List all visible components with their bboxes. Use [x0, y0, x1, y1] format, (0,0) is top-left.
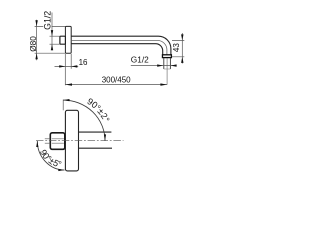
shower arm tube outline (side view) [71, 36, 171, 55]
outlet joint band [162, 55, 171, 58]
arm middle line [71, 41, 167, 55]
dim 16 [55, 65, 79, 67]
arm centerline (top view) [36, 140, 124, 142]
flange face extension line (up) [62, 100, 64, 111]
thread nub G1/2 (side view) [60, 36, 66, 44]
dim G1/2 line (left) [51, 13, 53, 51]
arm (top view) [79, 132, 113, 148]
mounting nut (top view) [50, 133, 65, 150]
svg-text:G1/2: G1/2 [43, 11, 53, 30]
dim Ø80 extension lines [35, 26, 66, 53]
outlet tube below band [164, 58, 171, 69]
wall flange (side view) [65, 26, 71, 53]
angle arc 90°±2° [63, 100, 105, 141]
wall flange (top view) [65, 110, 78, 171]
dim 43 [172, 41, 185, 57]
dim 300/450 [65, 84, 167, 86]
svg-text:G1/2: G1/2 [131, 54, 149, 64]
dim 16 extension lines [65, 54, 71, 85]
thread stub left of nut [45, 139, 51, 143]
outlet centerline extension [166, 58, 168, 85]
svg-text:300/450: 300/450 [102, 75, 131, 84]
angle arc 90°±5° [37, 141, 64, 170]
dim Ø80 line [36, 20, 38, 61]
dim G1/2 extension lines [50, 36, 60, 44]
svg-text:16: 16 [79, 58, 88, 67]
svg-text:Ø80: Ø80 [28, 36, 38, 52]
svg-text:43: 43 [172, 43, 181, 52]
